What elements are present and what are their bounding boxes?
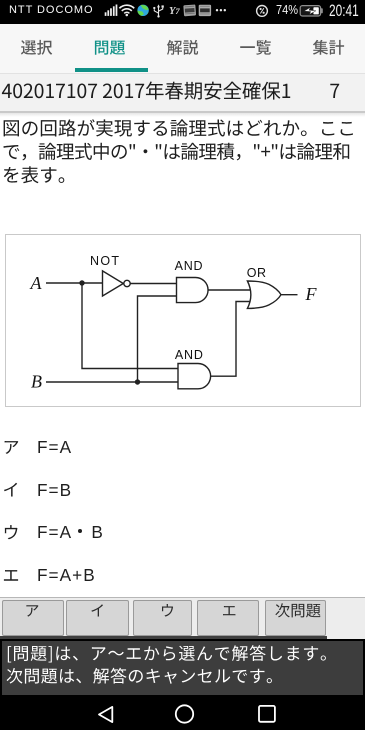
ellipsis dots — [216, 9, 218, 11]
button label イ — [91, 604, 103, 616]
nav home circle — [176, 705, 193, 722]
svg-text:A: A — [30, 273, 43, 293]
usb icon — [154, 6, 162, 16]
option エ — [4, 570, 18, 581]
button label エ — [223, 606, 235, 615]
wire AND G3 output up to OR lower input — [211, 302, 251, 377]
wifi icon — [119, 5, 134, 13]
wire NOT output to AND G2 top input — [130, 283, 176, 285]
tab 集計 — [313, 40, 344, 55]
svg-text:F: F — [305, 284, 318, 304]
tab 一覧 — [240, 40, 271, 55]
junction node on A — [79, 280, 84, 285]
option ア — [5, 441, 19, 454]
button label ウ — [162, 604, 173, 617]
svg-text:AND: AND — [175, 259, 204, 273]
tab 選択 — [21, 40, 52, 55]
question number 7 — [330, 84, 339, 98]
circled percent icon — [257, 5, 268, 16]
svg-text:B: B — [31, 372, 42, 392]
AND gate G2 — [177, 278, 209, 303]
option イ — [4, 483, 17, 497]
svg-text:Y7: Y7 — [169, 6, 180, 17]
wire input A — [46, 282, 103, 284]
app notif icon 1 — [183, 4, 196, 16]
button label 次問題 — [275, 603, 320, 617]
id row — [0, 74, 365, 113]
svg-text:AND: AND — [175, 348, 204, 362]
wire B up-branch to AND G2 lower input — [138, 296, 177, 382]
status bar — [0, 0, 365, 24]
app notif icon 2 — [199, 5, 211, 16]
junction node on B — [135, 379, 140, 384]
wire OR output to F — [281, 294, 298, 296]
id text — [2, 82, 290, 100]
nav recents square — [259, 706, 275, 722]
NOT gate U1 triangle — [103, 271, 124, 296]
question line1 — [4, 119, 353, 136]
svg-text:OR: OR — [247, 266, 267, 280]
question line3 — [4, 166, 65, 183]
tab 解説 — [167, 40, 198, 55]
battery icon — [300, 6, 320, 16]
tab 問題 (selected) — [95, 41, 125, 55]
wire A branch down to lower AND — [82, 283, 178, 369]
svg-text:NOT: NOT — [90, 254, 120, 268]
question line2 — [4, 143, 350, 161]
help line1 — [8, 645, 326, 662]
OR gate G4 — [247, 281, 281, 308]
button label ア — [26, 605, 38, 617]
AND gate G3 — [178, 364, 211, 389]
option ウ — [5, 525, 18, 539]
signal bars icon — [105, 12, 107, 16]
tab underline — [75, 68, 148, 72]
nav back triangle — [99, 707, 112, 722]
wire AND G2 output to OR — [208, 289, 251, 291]
circuit panel border — [5, 234, 361, 407]
wire input B — [46, 381, 178, 383]
help line2 — [7, 668, 272, 684]
tab bar — [0, 24, 365, 74]
NOT gate U1 bubble — [124, 280, 130, 286]
